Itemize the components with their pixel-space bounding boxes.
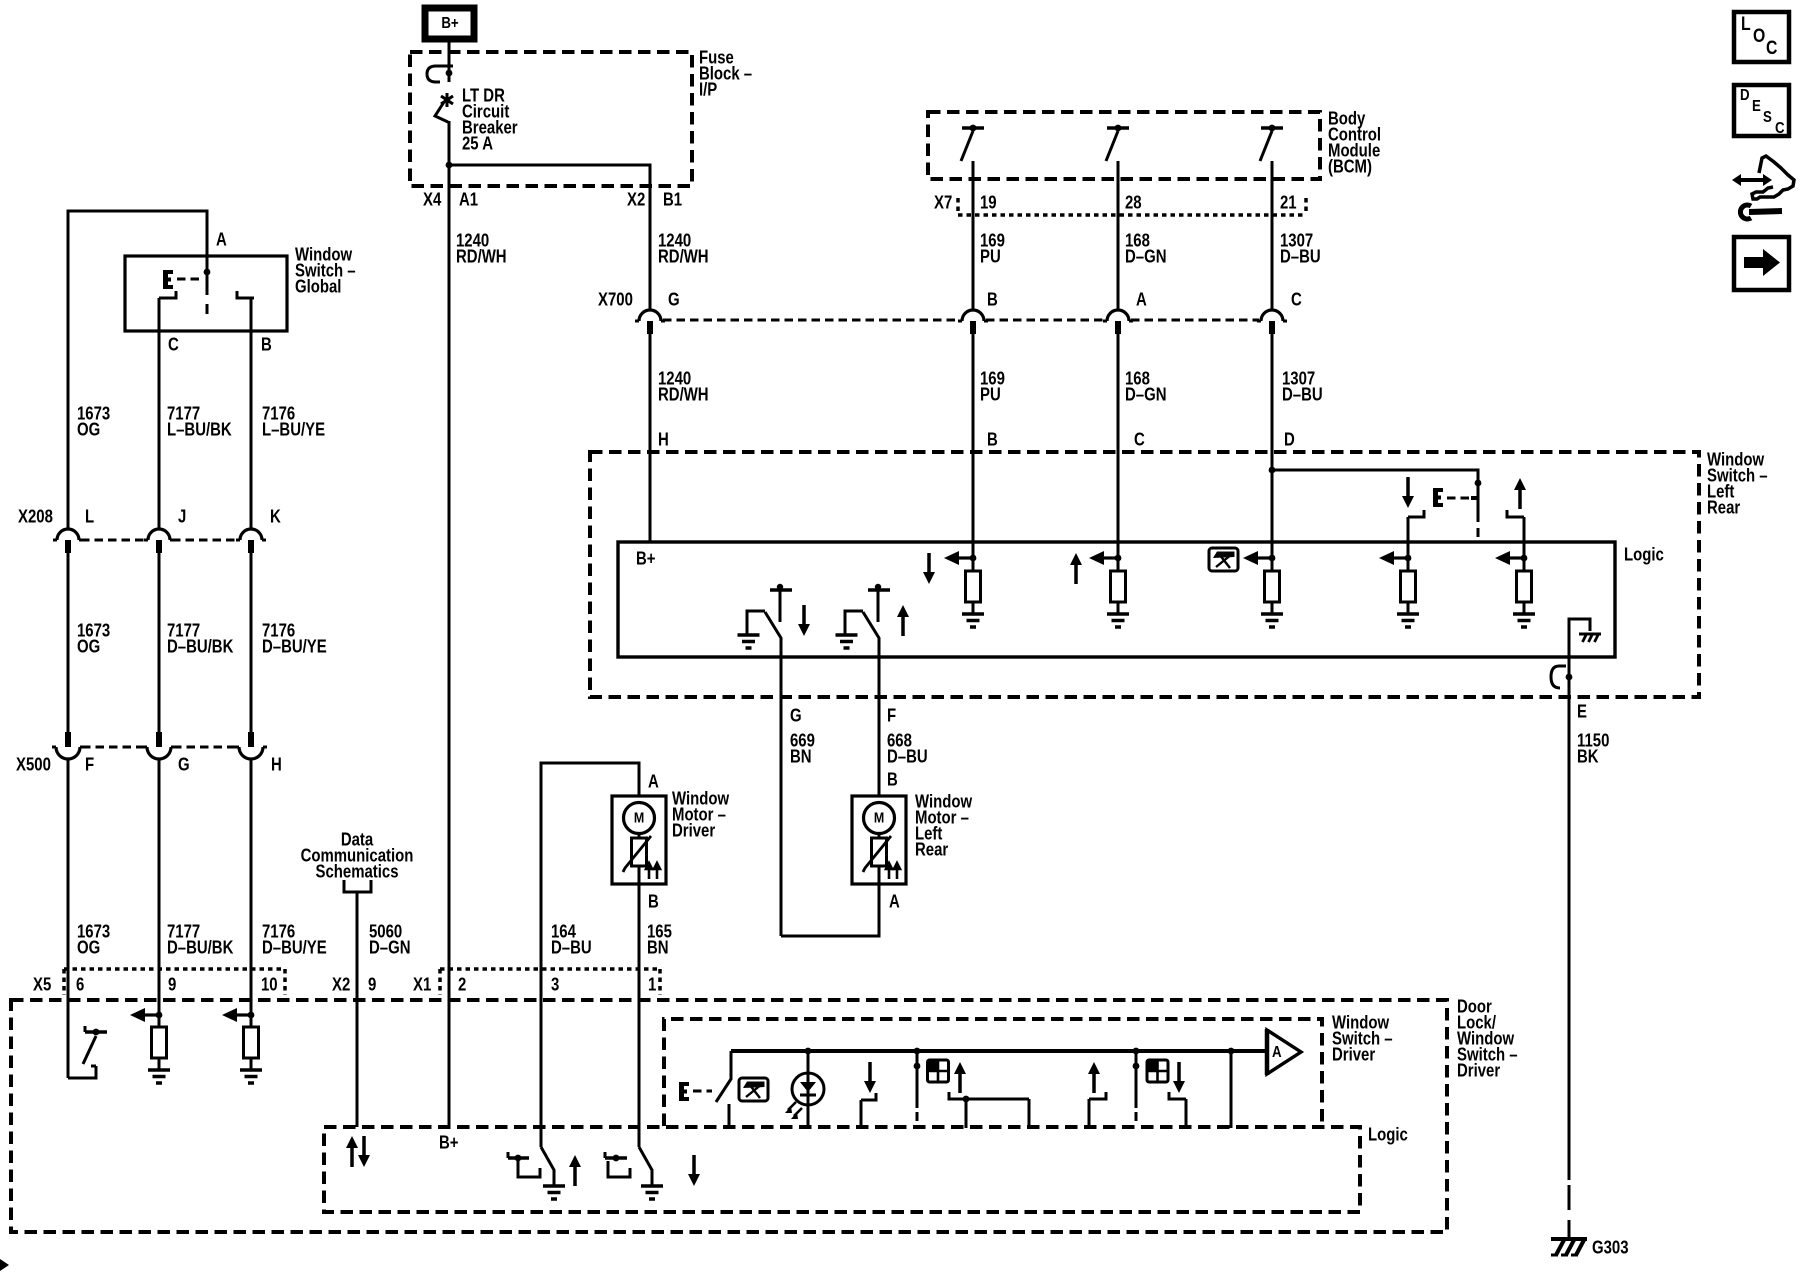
bus output wire — [1228, 1048, 1235, 1128]
svg-text:Driver: Driver — [1332, 1044, 1376, 1065]
lock switch contact T-bar — [85, 1026, 107, 1035]
left rear logic box — [618, 542, 1615, 657]
icon DESC box — [1734, 85, 1789, 137]
output switch blade at 747 — [765, 612, 781, 657]
BCM output driver switch pin 28 — [1106, 125, 1129, 310]
sense leg node at 251 lower — [222, 1008, 254, 1027]
wire A1 feed down from breaker — [448, 121, 451, 1127]
window motor driver thermal protector — [623, 833, 651, 884]
svg-text:Driver: Driver — [1457, 1060, 1501, 1081]
svg-text:B: B — [987, 289, 998, 310]
svg-text:X2: X2 — [332, 974, 350, 995]
wire label 7176 D-BU/YE mid — [262, 620, 327, 657]
up switch arrow left rear — [1514, 478, 1526, 509]
wire label 1307 D-BU lower — [1282, 368, 1323, 405]
wire G out of box — [780, 657, 783, 936]
svg-text:A: A — [1272, 1044, 1282, 1061]
svg-text:OG: OG — [77, 636, 100, 657]
svg-text:K: K — [270, 506, 281, 527]
wire motor A loop to G — [781, 884, 879, 936]
bus E glyph — [679, 1082, 689, 1101]
wire 7176 mid — [250, 553, 253, 732]
svg-text:Driver: Driver — [672, 820, 716, 841]
ground leg 1408 — [1397, 614, 1419, 627]
driver blade 2 — [1133, 1048, 1140, 1121]
wire 7176 lower — [250, 759, 253, 1015]
svg-text:D: D — [1284, 429, 1295, 450]
svg-text:B: B — [887, 769, 898, 790]
circuit breaker blade — [435, 102, 448, 122]
wire label 168 D-GN lower — [1125, 368, 1166, 405]
svg-text:Rear: Rear — [915, 839, 949, 860]
connector X208 pin J — [144, 529, 174, 553]
output switch ground at 845 — [836, 611, 864, 648]
svg-text:D–BU: D–BU — [551, 937, 592, 958]
svg-text:D–BU/YE: D–BU/YE — [262, 937, 327, 958]
driver down contact 2 — [1169, 1092, 1186, 1128]
switch E control glyph — [163, 270, 173, 289]
connector X500 pin H — [235, 732, 267, 759]
wire 1240 below X700 — [649, 334, 652, 542]
wire label 7177 D-BU/BK mid — [167, 620, 233, 657]
battery feed B+ box — [425, 8, 474, 39]
svg-text:X7: X7 — [934, 192, 952, 213]
wire label 1307 D-BU — [1280, 230, 1321, 267]
down switch arrow left rear — [1402, 477, 1414, 508]
driver switch bus line — [731, 1049, 1267, 1053]
lock switch blade — [83, 1036, 96, 1064]
wire label 1240 RD/WH lower — [658, 368, 709, 405]
switch contact B — [237, 291, 254, 298]
label Window Switch Global — [295, 244, 356, 297]
resistor leg 1524 — [1517, 571, 1532, 602]
resistor leg 1272 — [1265, 571, 1280, 602]
node express blade dot — [1475, 480, 1482, 487]
svg-text:B: B — [987, 429, 998, 450]
wire resistor to ground lower 251 — [250, 1058, 253, 1070]
resistor leg 1408 — [1401, 571, 1416, 602]
svg-text:Schematics: Schematics — [316, 861, 399, 882]
express switch T stub — [1471, 496, 1478, 500]
node D branch dot — [1269, 467, 1276, 474]
wire D branch to express switch — [1272, 470, 1478, 522]
wire E out of box — [1568, 657, 1571, 1180]
svg-text:B1: B1 — [663, 189, 682, 210]
svg-text:X4: X4 — [423, 189, 442, 210]
pane icon 1 — [928, 1060, 949, 1082]
wire branch to B1 — [449, 165, 650, 310]
svg-text:(BCM): (BCM) — [1328, 156, 1372, 177]
connector X500 dashed link — [82, 746, 237, 749]
svg-text:B: B — [648, 891, 659, 912]
wire label 169 PU — [980, 230, 1005, 267]
wire label 1673 OG — [77, 403, 110, 440]
svg-text:D–BU: D–BU — [1280, 246, 1321, 267]
svg-text:21: 21 — [1280, 192, 1297, 213]
connector X700 pin G — [635, 310, 665, 334]
svg-text:X500: X500 — [16, 754, 51, 775]
body control module BCM dashed box — [928, 112, 1320, 179]
svg-text:F: F — [887, 705, 896, 726]
svg-text:L: L — [1741, 13, 1751, 35]
down arrow motor 165 — [688, 1155, 700, 1186]
wire label 7176 D-BU/YE lower — [262, 921, 327, 958]
svg-text:A: A — [889, 891, 900, 912]
down arrow G switch — [798, 605, 810, 636]
svg-text:L–BU/BK: L–BU/BK — [167, 419, 232, 440]
up arrow F switch — [897, 605, 909, 636]
svg-text:H: H — [271, 754, 282, 775]
svg-text:G303: G303 — [1592, 1237, 1629, 1258]
wire label 1673 OG mid — [77, 620, 110, 657]
svg-text:A: A — [648, 771, 659, 792]
svg-text:X2: X2 — [627, 189, 645, 210]
resistor lower leg 251 — [244, 1027, 259, 1058]
wire resistor to ground 1272 — [1271, 602, 1274, 614]
output switch ground at 747 — [738, 611, 766, 648]
svg-text:9: 9 — [368, 974, 376, 995]
output switch blade at 845 — [863, 612, 879, 657]
wire label 165 BN — [647, 921, 672, 958]
connector X208 pin L — [53, 529, 83, 553]
sense leg node at 1524 — [1495, 551, 1527, 571]
svg-text:Logic: Logic — [1624, 544, 1664, 565]
svg-text:D–BU: D–BU — [887, 746, 928, 767]
wire C down — [158, 298, 161, 529]
svg-text:19: 19 — [980, 192, 997, 213]
bus E dashed link — [693, 1090, 712, 1093]
express switch E glyph — [1433, 488, 1443, 507]
svg-text:E: E — [1752, 98, 1761, 115]
wire 164 D-BU riser — [541, 763, 639, 1147]
connector X208 pin K — [236, 529, 266, 553]
connector X208 dashed link — [81, 539, 238, 542]
output switch contact T at 747 — [770, 584, 792, 622]
svg-text:OG: OG — [77, 937, 100, 958]
connector X700 pin C — [1257, 310, 1287, 334]
window motor left rear box — [852, 796, 906, 884]
resistor leg 973 — [966, 571, 981, 602]
wire up-contact to logic — [1523, 517, 1526, 558]
driver blade 1 — [914, 1048, 921, 1121]
express window icon leg D — [1209, 548, 1238, 571]
svg-text:RD/WH: RD/WH — [658, 384, 709, 405]
ground leg 1118 — [1107, 614, 1129, 627]
svg-text:O: O — [1753, 25, 1765, 47]
circuit breaker CB thermal curl — [427, 66, 453, 82]
wire label 168 D-GN — [1125, 230, 1166, 267]
svg-text:28: 28 — [1125, 192, 1142, 213]
svg-text:B+: B+ — [439, 1132, 459, 1153]
icon forward arrow box — [1734, 237, 1789, 290]
fuse block I/P dashed box — [410, 52, 692, 186]
up switch contact hook — [1507, 510, 1524, 517]
sense leg node at 973 — [944, 551, 976, 571]
svg-text:A1: A1 — [459, 189, 478, 210]
wire label 1150 BK — [1577, 730, 1609, 767]
svg-text:25 A: 25 A — [462, 133, 493, 154]
serial data up-down arrows — [346, 1136, 370, 1167]
wire 1673 mid — [67, 553, 70, 732]
node blade pivot dot — [204, 269, 211, 276]
label Door Lock Window Switch Driver — [1457, 996, 1518, 1081]
svg-text:BK: BK — [1577, 746, 1599, 767]
window motor left rear thermal protector — [863, 833, 891, 884]
svg-text:BN: BN — [647, 937, 669, 958]
BCM output driver switch pin 19 — [961, 125, 984, 310]
wire 169 below X700 — [972, 334, 975, 558]
driver up contact 2 — [1089, 1092, 1106, 1128]
motor blade 165 to ground — [639, 1147, 663, 1199]
driver down contact 1 — [861, 1093, 876, 1127]
wire B down — [250, 298, 253, 529]
svg-text:X5: X5 — [33, 974, 51, 995]
connector X1 dotted bracket — [440, 969, 660, 995]
motor down blade contact T — [508, 1152, 540, 1177]
svg-text:A: A — [1136, 289, 1147, 310]
window switch global box — [125, 256, 287, 331]
switch blade (dashed open) — [206, 275, 209, 314]
connector X7 dotted row — [958, 198, 1306, 215]
svg-text:G: G — [668, 289, 680, 310]
switch contact C — [159, 291, 176, 298]
label Data Communication Schematics — [301, 829, 414, 882]
svg-text:E: E — [1577, 701, 1587, 722]
label Window Motor Left Rear — [915, 791, 972, 860]
svg-text:B+: B+ — [636, 548, 656, 569]
label Fuse Block I/P — [699, 47, 752, 100]
svg-text:B: B — [261, 334, 272, 355]
connector X5 dotted bracket — [64, 969, 285, 995]
bus E switch blade — [716, 1051, 731, 1127]
svg-text:D–GN: D–GN — [1125, 384, 1166, 405]
express window icon driver — [739, 1078, 768, 1101]
svg-text:X1: X1 — [413, 974, 431, 995]
wire 1307 below X700 — [1271, 334, 1274, 558]
svg-text:Rear: Rear — [1707, 497, 1741, 518]
motor blade 164 to ground — [541, 1147, 565, 1199]
wire label 7177 L-BU/BK — [167, 403, 232, 440]
svg-text:B+: B+ — [441, 15, 458, 32]
window motor driver direction arrows — [646, 863, 660, 879]
svg-text:D–BU/BK: D–BU/BK — [167, 937, 233, 958]
driver up arrow 2 — [1088, 1062, 1100, 1093]
circuit breaker contact asterisk — [441, 93, 453, 107]
svg-text:A: A — [216, 229, 227, 250]
connector X700 dashed link — [663, 319, 1259, 322]
svg-text:Logic: Logic — [1368, 1124, 1408, 1145]
ground leg 973 — [962, 614, 984, 627]
svg-text:X208: X208 — [18, 506, 53, 527]
connector X700 pin B — [958, 310, 988, 334]
wire label 668 D-BU — [887, 730, 928, 767]
svg-text:D–BU: D–BU — [1282, 384, 1323, 405]
svg-text:D–GN: D–GN — [369, 937, 410, 958]
wire resistor to ground 1408 — [1407, 602, 1410, 614]
wire 165 BN from motor — [638, 884, 641, 1147]
wire label 669 BN — [790, 730, 815, 767]
svg-text:OG: OG — [77, 419, 100, 440]
wire down-contact to logic — [1407, 517, 1410, 558]
wire window-switch-global feed A — [68, 211, 207, 529]
svg-text:D–BU/BK: D–BU/BK — [167, 636, 233, 657]
svg-text:G: G — [178, 754, 190, 775]
sense leg node at 159 lower — [130, 1008, 162, 1027]
svg-text:9: 9 — [168, 974, 176, 995]
wire F out of box — [878, 657, 881, 796]
down switch contact hook — [1408, 510, 1424, 517]
svg-text:PU: PU — [980, 246, 1001, 267]
wire label 5060 D-GN — [369, 921, 410, 958]
svg-text:H: H — [658, 429, 669, 450]
svg-text:C: C — [1775, 120, 1785, 137]
driver down arrow 2 — [1173, 1062, 1185, 1093]
window motor left rear direction arrows — [886, 863, 900, 879]
junction dot breaker output — [446, 162, 453, 169]
wire 1150 dashed tail — [1568, 1185, 1571, 1237]
svg-text:C: C — [1134, 429, 1145, 450]
express switch blade dash — [1477, 528, 1480, 537]
label Body Control Module (BCM) — [1328, 108, 1381, 177]
svg-text:Global: Global — [295, 276, 341, 297]
svg-text:D: D — [1740, 87, 1750, 104]
svg-text:C: C — [1291, 289, 1302, 310]
wire B+ into fuse block — [448, 39, 451, 82]
wire label 1673 OG lower — [77, 921, 110, 958]
up arrow motor 164 — [569, 1155, 581, 1186]
svg-text:J: J — [178, 506, 186, 527]
buffer amp A — [1267, 1029, 1301, 1075]
resistor leg 1118 — [1111, 571, 1126, 602]
window motor driver box — [612, 796, 666, 884]
ground lower leg 251 — [240, 1070, 262, 1083]
resistor lower leg 159 — [152, 1027, 167, 1058]
window motor driver armature M — [624, 803, 655, 834]
wire 7177 mid — [158, 553, 161, 732]
svg-text:D–BU/YE: D–BU/YE — [262, 636, 327, 657]
svg-text:F: F — [85, 754, 94, 775]
express switch E dashed link — [1447, 497, 1470, 500]
wire resistor to ground 973 — [972, 602, 975, 614]
driver up contact rail 1 — [949, 1092, 1029, 1128]
ground lower leg 159 — [148, 1070, 170, 1083]
wire label 1240 RD/WH (A1) — [456, 230, 507, 267]
window switch left rear dashed box — [590, 452, 1699, 697]
ground leg 1272 — [1261, 614, 1283, 627]
ground leg 1524 — [1513, 614, 1535, 627]
data schematics bracket — [344, 880, 371, 892]
wire 7177 lower — [158, 759, 161, 1015]
window motor left rear armature M — [864, 803, 895, 834]
up arrow label leg C — [1070, 553, 1082, 584]
ground G303 — [1551, 1239, 1587, 1255]
driver up arrow 1 — [954, 1062, 966, 1093]
wire resistor to ground lower 159 — [158, 1058, 161, 1070]
svg-text:G: G — [790, 705, 802, 726]
label Window Switch Left Rear — [1707, 449, 1768, 518]
svg-text:M: M — [634, 809, 644, 825]
splice clip on E wire — [1551, 666, 1572, 688]
svg-text:6: 6 — [76, 974, 84, 995]
svg-text:S: S — [1763, 109, 1772, 126]
connector X500 pin F — [52, 732, 84, 759]
connector X500 pin G — [143, 732, 175, 759]
svg-text:L–BU/YE: L–BU/YE — [262, 419, 325, 440]
svg-text:3: 3 — [551, 974, 559, 995]
connector X700 pin A — [1103, 310, 1133, 334]
sense leg node at 1272 — [1243, 551, 1275, 571]
pane icon 2 — [1147, 1060, 1168, 1082]
chassis ground logic internal — [1569, 619, 1601, 657]
motor up blade contact T — [605, 1152, 630, 1177]
wire 5060 serial data — [356, 892, 359, 1127]
LED indicator — [785, 1048, 824, 1127]
driver logic dashed box — [324, 1127, 1360, 1212]
BCM output driver switch pin 21 — [1260, 125, 1283, 310]
svg-text:RD/WH: RD/WH — [456, 246, 507, 267]
icon LOC box — [1734, 12, 1789, 62]
label LT DR Circuit Breaker 25 A — [462, 85, 518, 154]
svg-text:L: L — [85, 506, 94, 527]
page corner mark — [0, 1259, 9, 1271]
svg-text:I/P: I/P — [699, 79, 717, 100]
svg-text:RD/WH: RD/WH — [658, 246, 709, 267]
lock switch fixed contact — [68, 1066, 96, 1078]
wire resistor to ground 1118 — [1117, 602, 1120, 614]
svg-text:C: C — [168, 334, 179, 355]
wire 1673 lower — [67, 759, 70, 1078]
svg-text:10: 10 — [261, 974, 278, 995]
switch E dashed link — [177, 278, 203, 281]
output switch contact T at 845 — [868, 584, 890, 622]
svg-text:1: 1 — [648, 974, 656, 995]
driver down arrow 1 — [864, 1062, 876, 1093]
window switch driver dashed box — [664, 1019, 1322, 1126]
svg-text:PU: PU — [980, 384, 1001, 405]
svg-text:2: 2 — [458, 974, 466, 995]
label Window Switch Driver — [1332, 1012, 1393, 1065]
wire label 7176 L-BU/YE — [262, 403, 325, 440]
svg-text:D–GN: D–GN — [1125, 246, 1166, 267]
sense leg node at 1408 — [1379, 551, 1411, 571]
svg-text:C: C — [1766, 37, 1778, 59]
sense leg node at 1118 — [1089, 551, 1121, 571]
wire 168 below X700 — [1117, 334, 1120, 558]
label Window Motor Driver — [672, 788, 729, 841]
wire label 169 PU lower — [980, 368, 1005, 405]
wire label 164 D-BU — [551, 921, 592, 958]
down arrow label leg B — [923, 553, 935, 584]
door lock window switch driver dashed box — [11, 1000, 1447, 1232]
svg-text:M: M — [874, 809, 884, 825]
svg-text:X700: X700 — [598, 289, 633, 310]
svg-text:BN: BN — [790, 746, 812, 767]
wire label 1240 RD/WH (B1) — [658, 230, 709, 267]
wire resistor to ground 1524 — [1523, 602, 1526, 614]
icon car outline with double arrow and wrench — [1732, 156, 1794, 219]
wire label 7177 D-BU/BK lower — [167, 921, 233, 958]
